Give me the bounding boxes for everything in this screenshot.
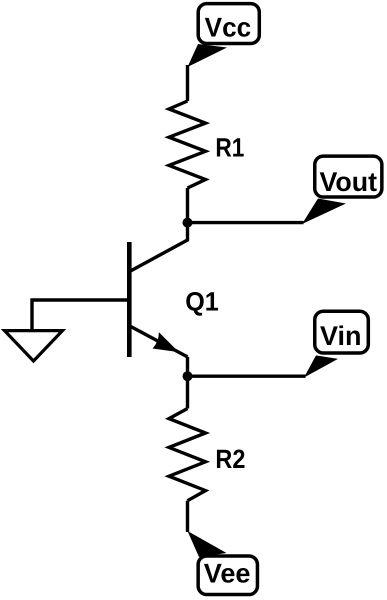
- wire node to Vout: [188, 221, 304, 224]
- wire R2 to Vee: [186, 501, 189, 532]
- wire emitter to node: [186, 357, 189, 376]
- transistor Q1: [129, 242, 187, 357]
- svg-text:Vin: Vin: [320, 321, 362, 351]
- flag Vee: [188, 531, 258, 595]
- svg-text:Vcc: Vcc: [205, 13, 252, 43]
- node emitter junction: [183, 371, 193, 381]
- svg-text:Vout: Vout: [320, 167, 378, 197]
- flag Vin: [304, 311, 368, 377]
- flag Vout: [302, 156, 382, 224]
- svg-text:R2: R2: [215, 444, 245, 474]
- node collector junction: [183, 218, 193, 228]
- resistor R2: [169, 409, 206, 501]
- wire node to R2: [186, 376, 189, 408]
- svg-text:Q1: Q1: [185, 287, 219, 317]
- resistor R1: [169, 101, 206, 188]
- wire node to Vin: [188, 375, 306, 378]
- flag Vcc: [188, 4, 260, 67]
- wire base to ground: [32, 300, 129, 331]
- svg-text:Vee: Vee: [204, 559, 251, 589]
- wire Vcc to R1: [186, 65, 189, 101]
- ground: [5, 331, 63, 361]
- svg-text:R1: R1: [215, 133, 244, 163]
- wire collector: [129, 223, 187, 272]
- wire R1 to collector node: [186, 188, 189, 223]
